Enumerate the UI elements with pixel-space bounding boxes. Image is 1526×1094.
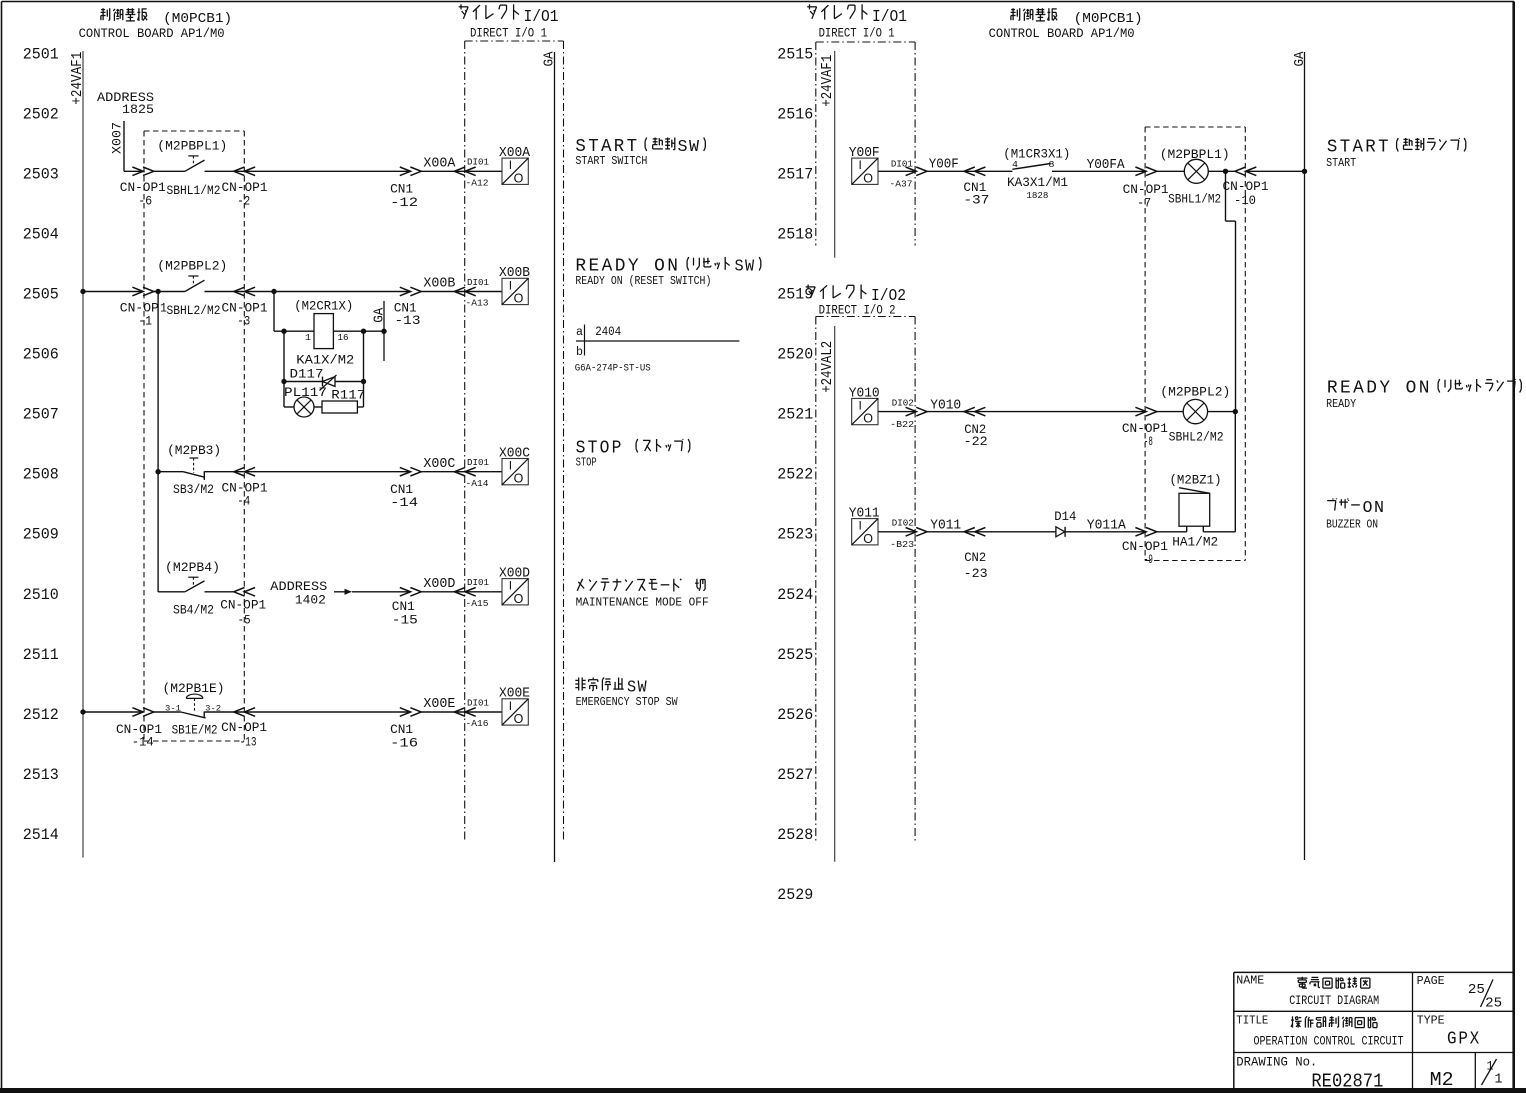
svg-text:I: I [509, 699, 512, 713]
connector pin CN-OP1-7 arrow [1135, 167, 1146, 176]
svg-text:1: 1 [1495, 1073, 1503, 1088]
svg-text:SB1E/M2: SB1E/M2 [172, 723, 218, 738]
svg-text:25: 25 [1485, 996, 1502, 1011]
svg-text:READY ON: READY ON [1327, 378, 1432, 399]
svg-text:DRAWING No.: DRAWING No. [1236, 1056, 1317, 1070]
svg-text:2516: 2516 [777, 105, 813, 123]
svg-text:-A12: -A12 [466, 177, 489, 188]
svg-text:Y011A: Y011A [1087, 518, 1127, 533]
lamp SBHL1/M2 (M2PBPL1) start lamp [1157, 147, 1235, 207]
svg-text:TITLE: TITLE [1236, 1015, 1268, 1028]
svg-text:-13: -13 [395, 313, 421, 328]
label START (start switch) [575, 136, 705, 168]
wire +24VAF1 to CN-OP1-14 row 2512 [80, 709, 143, 714]
connector pin DI01-A16 arrow [454, 708, 465, 717]
title block PAGE cell 25/25 [1417, 975, 1502, 1011]
svg-text:2509: 2509 [23, 526, 59, 544]
svg-text:-A16: -A16 [466, 718, 489, 729]
wire to CN1-15 net X00D [352, 591, 411, 593]
connector pin CN-OP1-4 arrow [234, 467, 245, 476]
wire switch to CN1-16 net X00E [204, 711, 410, 713]
svg-text:X00E: X00E [423, 697, 455, 712]
connector pin DI01-A15 arrow [454, 588, 465, 597]
wire Y010 to DI02-B22 [878, 411, 917, 413]
label MAINTENANCE MODE OFF [576, 579, 709, 610]
svg-text:DI01: DI01 [467, 157, 489, 168]
svg-text:-B22: -B22 [890, 419, 914, 430]
svg-text:MAINTENANCE MODE OFF: MAINTENANCE MODE OFF [576, 596, 709, 610]
svg-text:a: a [576, 326, 583, 339]
switch SB3/M2 (M2PB3) NC pushbutton [155, 443, 221, 497]
label BUZZER ON [1326, 499, 1385, 532]
svg-text:SB3/M2: SB3/M2 [173, 482, 214, 497]
svg-text:O: O [514, 292, 524, 306]
title block frame [1234, 972, 1514, 1090]
connector pin CN-OP1-14 arrow [132, 708, 143, 717]
svg-text:1825: 1825 [122, 103, 154, 117]
svg-text:DI02: DI02 [892, 518, 914, 529]
connector pin CN1-12 arrow [400, 167, 411, 176]
wire switch to CN-OP1-5 [205, 591, 234, 593]
wire CN1-15 to DI01-A15 [421, 591, 502, 593]
wire X007 to CN-OP1-6 row 2503 [124, 170, 143, 172]
svg-text:2508: 2508 [23, 466, 59, 484]
connector pin CN1-13 arrow [400, 287, 411, 296]
connector pin DI02-B23 arrow [906, 528, 917, 537]
svg-text:2512: 2512 [23, 706, 59, 724]
svg-text:SBHL1/M2: SBHL1/M2 [1168, 192, 1221, 207]
svg-text:Y00FA: Y00FA [1087, 158, 1126, 173]
svg-text:I: I [859, 158, 862, 172]
svg-text:X00C: X00C [499, 446, 530, 461]
svg-text:RE02871: RE02871 [1311, 1071, 1383, 1093]
svg-text:I/O2: I/O2 [871, 286, 906, 305]
svg-text:O: O [514, 472, 524, 486]
svg-text:HA1/M2: HA1/M2 [1172, 534, 1218, 549]
svg-text:TYPE: TYPE [1417, 1015, 1445, 1028]
svg-text:2511: 2511 [23, 646, 59, 664]
title block NAME cell [1236, 975, 1379, 1008]
wire CN1-13 to DI01-A13 [421, 291, 502, 293]
svg-text:1402: 1402 [295, 593, 326, 607]
svg-text:(M2PBPL2): (M2PBPL2) [157, 259, 227, 274]
svg-text:-8: -8 [1144, 434, 1153, 449]
svg-text:+24VAL2: +24VAL2 [820, 341, 836, 393]
I/O module box Y00F [849, 146, 880, 185]
svg-text:DI01: DI01 [467, 697, 489, 708]
connector pin CN-OP1-1 arrow [132, 287, 143, 296]
svg-text:READY ON (RESET SWITCH): READY ON (RESET SWITCH) [575, 274, 711, 288]
node junction to SB3/SB4 branch [155, 289, 160, 294]
svg-text:(M0PCB1): (M0PCB1) [1074, 11, 1143, 27]
wire to CN1-37 [927, 170, 1012, 172]
svg-text:SB4/M2: SB4/M2 [173, 602, 214, 617]
svg-text:Y00F: Y00F [849, 146, 880, 161]
svg-text:2526: 2526 [777, 706, 813, 724]
svg-text:SW: SW [678, 138, 701, 157]
header: direct I/O 1 (right) [807, 4, 907, 40]
svg-text:Y00F: Y00F [929, 158, 959, 173]
connector pin DI01-A14 arrow [454, 467, 465, 476]
svg-text:-A37: -A37 [890, 179, 913, 190]
svg-text:-B23: -B23 [890, 539, 914, 550]
I/O module box X00D [499, 567, 530, 606]
svg-text:CN-OP1: CN-OP1 [1223, 179, 1269, 194]
svg-text:-12: -12 [390, 195, 418, 210]
svg-text:ON: ON [1363, 499, 1386, 518]
svg-text:2504: 2504 [23, 226, 59, 244]
svg-text:2501: 2501 [23, 45, 59, 63]
svg-text:-7: -7 [1137, 195, 1151, 210]
svg-text:2522: 2522 [777, 466, 813, 484]
header: control board AP1/M0 (right) [989, 8, 1143, 41]
switch SBHL2/M2 (M2PBPL2) NO pushbutton [154, 259, 228, 319]
label READY ON (ready lamp) [1326, 378, 1521, 412]
svg-text:ADDRESS: ADDRESS [270, 580, 327, 594]
net GA line (right) [1292, 51, 1308, 860]
svg-text:2527: 2527 [777, 766, 813, 784]
wire start-lamp feed drop with jog [1226, 171, 1236, 411]
svg-text:-10: -10 [1234, 193, 1256, 208]
svg-text:O: O [863, 532, 873, 546]
svg-text:GA: GA [371, 307, 387, 323]
I/O module box X00B [499, 266, 530, 305]
svg-text:-14: -14 [132, 734, 154, 749]
connector pin CN2-22 arrow [964, 407, 975, 416]
connector pin CN-OP1-5 arrow [234, 588, 245, 597]
svg-text:CN-OP1: CN-OP1 [221, 720, 267, 735]
svg-text:GA: GA [541, 51, 557, 67]
svg-text:I/O1: I/O1 [872, 7, 907, 26]
I/O module box Y010 [849, 386, 880, 425]
svg-text:SBHL2/M2: SBHL2/M2 [167, 303, 221, 318]
svg-text:SBHL2/M2: SBHL2/M2 [1169, 429, 1224, 444]
svg-text:2502: 2502 [23, 105, 59, 123]
wire CN1-14 to DI01-A14 [421, 471, 502, 473]
wire lamp branch left vertical [283, 331, 285, 407]
svg-text:(M0PCB1): (M0PCB1) [163, 11, 232, 27]
connector pin DI01-A12 arrow [454, 167, 465, 176]
connector pin CN1-37 arrow [964, 167, 975, 176]
wire to CN2-22 [927, 411, 1146, 413]
svg-text:O: O [514, 712, 524, 726]
svg-text:CONTROL BOARD AP1/M0: CONTROL BOARD AP1/M0 [989, 27, 1135, 41]
wire Y011 to DI02-B23 [878, 531, 917, 533]
svg-text:DI02: DI02 [892, 398, 914, 409]
title block DRAWING No. cell [1236, 1056, 1383, 1093]
svg-text:+24VAF1: +24VAF1 [820, 55, 836, 107]
header: control board AP1/M0 (left) [79, 8, 233, 41]
label START (start lamp) [1326, 137, 1466, 171]
svg-text:2510: 2510 [23, 586, 59, 604]
lamp circle symbol [1183, 399, 1207, 423]
svg-text:(M2CR1X): (M2CR1X) [294, 299, 353, 314]
svg-text:DIRECT I/O 2: DIRECT I/O 2 [819, 304, 896, 318]
svg-text:(M2PBPL2): (M2PBPL2) [1160, 385, 1230, 400]
buzzer HA1/M2 (M2BZ1) [1157, 472, 1222, 549]
I/O module box X00E [499, 687, 530, 726]
connector CN-OP1 dashed box (right) [1145, 127, 1245, 561]
svg-text:2521: 2521 [777, 406, 813, 424]
I/O module box Y011 [849, 507, 880, 546]
svg-text:GA: GA [1292, 51, 1308, 67]
connector pin CN-OP1-13 arrow [234, 708, 245, 717]
svg-text:2503: 2503 [23, 166, 59, 184]
svg-text:O: O [863, 412, 873, 426]
net +24VAF1 right power bus [820, 51, 836, 258]
svg-text:2519: 2519 [777, 286, 813, 304]
connector pin CN-OP1-3 arrow [234, 287, 245, 296]
svg-text:O: O [514, 592, 524, 606]
title block M2 cell [1430, 1069, 1454, 1091]
svg-text:-A15: -A15 [466, 598, 489, 609]
wire switch to CN1-13 net X00B [205, 291, 411, 293]
svg-text:2524: 2524 [777, 586, 813, 604]
svg-text:2515: 2515 [777, 45, 813, 63]
relay coil box M2CR1X [314, 314, 333, 349]
svg-text:-A13: -A13 [466, 298, 489, 309]
svg-text:X00D: X00D [499, 567, 530, 582]
svg-text:(M2BZ1): (M2BZ1) [1170, 472, 1222, 487]
svg-text:2505: 2505 [23, 286, 59, 304]
switch SB1E/M2 (M2PB1E) emergency stop NC [154, 681, 225, 738]
enclosure DIRECT I/O 1 dash-dot box (right) [816, 42, 915, 246]
connector pin DI01-A13 arrow [454, 287, 465, 296]
svg-text:CIRCUIT DIAGRAM: CIRCUIT DIAGRAM [1289, 993, 1379, 1008]
svg-text:(M2PBPL1): (M2PBPL1) [157, 139, 227, 154]
lamp circle symbol [1184, 159, 1208, 183]
node X007 stub [110, 121, 125, 171]
enclosure DIRECT I/O 1 dash-dot box (left) [465, 41, 564, 842]
svg-text:GPX: GPX [1447, 1029, 1481, 1049]
title block TITLE cell [1236, 1015, 1403, 1049]
svg-text:-16: -16 [390, 735, 418, 750]
svg-text:START: START [1326, 156, 1356, 170]
svg-text:-9: -9 [1144, 552, 1153, 567]
wire Y00F to DI01-A37 [878, 170, 917, 172]
svg-text:-5: -5 [238, 613, 251, 628]
svg-text:-13: -13 [240, 734, 257, 749]
svg-text:-6: -6 [138, 193, 152, 208]
wire junction down to buzzer return [1234, 412, 1236, 532]
node relay tap junction [271, 289, 276, 294]
wire +24VAF1 to CN-OP1-1 row 2505 [80, 289, 143, 294]
relay KA1X/M2 (M2CR1X) coil subcircuit [274, 292, 387, 418]
svg-text:I: I [509, 278, 512, 292]
connector pin DI01-A37 arrow [906, 167, 917, 176]
lamp SBHL2/M2 (M2PBPL2) ready lamp [1157, 385, 1236, 445]
svg-text:2528: 2528 [777, 826, 813, 844]
title block TYPE cell GPX [1417, 1015, 1481, 1050]
switch SBHL1/M2 (M2PBPL1) NO pushbutton [154, 139, 228, 199]
svg-text:DI01: DI01 [467, 577, 489, 588]
connector pin CN-OP1-10 arrow [1235, 167, 1246, 176]
label ADDRESS 1825 [97, 91, 154, 117]
right grid line numbers 2515-2529 [777, 45, 813, 904]
svg-text:SBHL1/M2: SBHL1/M2 [167, 183, 221, 198]
net GA stub at relay [383, 301, 385, 361]
connector pin CN-OP1-8 arrow [1135, 407, 1146, 416]
I/O module box X00C [499, 446, 530, 485]
svg-text:2506: 2506 [23, 346, 59, 364]
svg-text:16: 16 [338, 332, 349, 343]
svg-text:NAME: NAME [1236, 975, 1264, 988]
svg-text:2514: 2514 [23, 826, 59, 844]
svg-text:b: b [576, 346, 583, 359]
I/O module box X00A [499, 146, 531, 185]
svg-text:1: 1 [305, 332, 311, 343]
svg-text:READY: READY [1326, 397, 1356, 411]
svg-text:-1: -1 [138, 313, 152, 328]
label STOP [576, 438, 690, 470]
wire branch vertical 2505-2510 [157, 292, 159, 592]
wire CN1-16 to DI01-A16 [421, 711, 502, 713]
svg-text:Y010: Y010 [849, 386, 880, 401]
connector pin CN-OP1-6 arrow [132, 167, 143, 176]
svg-text:START SWITCH: START SWITCH [575, 154, 647, 168]
svg-text:-3: -3 [237, 313, 250, 328]
svg-text:I: I [859, 398, 862, 412]
header: direct I/O 2 (right) [806, 285, 906, 318]
svg-text:I: I [859, 519, 862, 533]
svg-text:X00B: X00B [423, 277, 455, 292]
svg-text:+24VAF1: +24VAF1 [70, 52, 86, 105]
svg-text:Y011: Y011 [849, 507, 880, 522]
connector pin CN-OP1-9 arrow [1135, 528, 1146, 537]
svg-text:-4: -4 [237, 494, 250, 509]
svg-text:I: I [509, 158, 512, 172]
svg-text:25: 25 [1468, 983, 1485, 998]
enclosure DIRECT I/O 2 dash-dot box [816, 317, 915, 843]
svg-text:X00D: X00D [423, 577, 455, 592]
svg-text:O: O [514, 171, 524, 185]
svg-text:CN-OP1: CN-OP1 [220, 597, 266, 612]
svg-text:-23: -23 [964, 566, 988, 581]
svg-text:DIRECT I/O 1: DIRECT I/O 1 [819, 27, 895, 41]
svg-text:STOP: STOP [576, 455, 597, 469]
relay socket note G6A-274P-ST-US [575, 325, 740, 375]
svg-text:-37: -37 [963, 192, 989, 207]
svg-text:-22: -22 [964, 434, 988, 449]
wire to CN2-23 [927, 531, 1056, 533]
connector pin CN1-16 arrow [400, 708, 411, 717]
wire contact to CN-OP1-7 net Y00FA [1052, 170, 1146, 172]
svg-text:I: I [509, 579, 512, 593]
connector pin DI02-B22 arrow [906, 407, 917, 416]
title block sheet 1/1 cell [1482, 1059, 1503, 1088]
label EMERGENCY STOP SW [575, 678, 678, 709]
svg-text:D117: D117 [290, 366, 324, 381]
svg-text:X00E: X00E [499, 687, 530, 702]
svg-text:2507: 2507 [23, 406, 59, 424]
svg-text:8: 8 [1049, 159, 1055, 170]
svg-text:4: 4 [1012, 159, 1018, 170]
svg-text:START: START [1327, 137, 1391, 158]
svg-text:2520: 2520 [777, 346, 813, 364]
net +24VAF1 left power bus [70, 51, 86, 858]
svg-text:O: O [863, 171, 873, 185]
label ADDRESS 1402 cross reference [270, 580, 352, 607]
svg-text:EMERGENCY STOP SW: EMERGENCY STOP SW [576, 695, 679, 709]
svg-text:DI01: DI01 [891, 159, 913, 170]
svg-text:G6A-274P-ST-US: G6A-274P-ST-US [575, 363, 651, 375]
svg-text:(M2PB3): (M2PB3) [167, 443, 221, 458]
node junction ready lamp to buzzer loop [1233, 409, 1238, 414]
connector pin CN1-14 arrow [400, 467, 411, 476]
svg-text:D14: D14 [1054, 509, 1076, 524]
svg-text:2517: 2517 [777, 166, 813, 184]
wire switch to CN1-14 net X00C [204, 471, 410, 473]
svg-text:DIRECT I/O 1: DIRECT I/O 1 [470, 27, 547, 41]
diode D14 [1054, 509, 1076, 537]
svg-text:I: I [509, 459, 512, 473]
svg-text:-14: -14 [390, 495, 418, 510]
connector CN-OP1 dashed box (left) [144, 131, 244, 741]
svg-text:BUZZER ON: BUZZER ON [1326, 518, 1378, 532]
wire D14 to CN-OP1-9 net Y011A [1065, 531, 1146, 533]
wire coil right [333, 330, 384, 332]
svg-text:KA1X/M2: KA1X/M2 [296, 352, 354, 367]
header: direct I/O 1 (left) [459, 4, 559, 40]
svg-text:KA3X1/M1: KA3X1/M1 [1007, 175, 1068, 190]
wire CN1-12 to DI01-A12 [421, 170, 502, 172]
svg-text:X00B: X00B [499, 266, 530, 281]
left grid line numbers 2501-2514 [23, 45, 59, 844]
connector pin CN2-23 arrow [964, 528, 975, 537]
svg-text:SW: SW [735, 258, 756, 277]
svg-text:2529: 2529 [777, 886, 813, 904]
svg-text:X00A: X00A [423, 157, 456, 172]
svg-text:-15: -15 [392, 613, 418, 628]
svg-text:I/O1: I/O1 [524, 7, 559, 26]
svg-text:2523: 2523 [777, 526, 813, 544]
svg-text:X00C: X00C [423, 457, 455, 472]
wire buzzer return to junction [1203, 531, 1235, 533]
svg-text:-2: -2 [237, 193, 250, 208]
svg-text:-A14: -A14 [466, 478, 489, 489]
wire switch to CN1-12 net X00A [205, 170, 411, 172]
svg-text:CONTROL BOARD AP1/M0: CONTROL BOARD AP1/M0 [79, 27, 225, 41]
svg-text:M2: M2 [1430, 1069, 1454, 1091]
svg-text:OPERATION CONTROL CIRCUIT: OPERATION CONTROL CIRCUIT [1254, 1034, 1404, 1049]
svg-text:2525: 2525 [777, 646, 813, 664]
net +24VAL2 power bus [820, 326, 836, 862]
svg-text:PAGE: PAGE [1417, 975, 1445, 988]
svg-text:CN2: CN2 [964, 550, 986, 565]
svg-text:2518: 2518 [777, 226, 813, 244]
svg-text:1828: 1828 [1026, 190, 1048, 201]
svg-text:2513: 2513 [23, 766, 59, 784]
svg-text:DI01: DI01 [467, 277, 489, 288]
connector pin CN1-15 arrow [400, 588, 411, 597]
svg-text:2404: 2404 [595, 325, 621, 339]
svg-text:X00A: X00A [499, 146, 531, 161]
node junction lamp to READY line [1223, 169, 1228, 174]
wire CN-OP1-10 to GA [1246, 169, 1308, 174]
switch SB4/M2 (M2PB4) NO pushbutton [158, 560, 220, 617]
label READY ON (reset switch) [575, 256, 760, 289]
svg-text:DI01: DI01 [467, 457, 489, 468]
svg-text:X007: X007 [110, 122, 125, 154]
net GA line (left) [541, 51, 557, 862]
svg-text:(M2PB4): (M2PB4) [165, 560, 220, 575]
contact KA3X1/M1 (M1CR3X1) relay contact [1003, 147, 1070, 202]
connector pin CN-OP1-2 arrow [234, 167, 245, 176]
wire lamp branch right vertical [363, 331, 365, 407]
